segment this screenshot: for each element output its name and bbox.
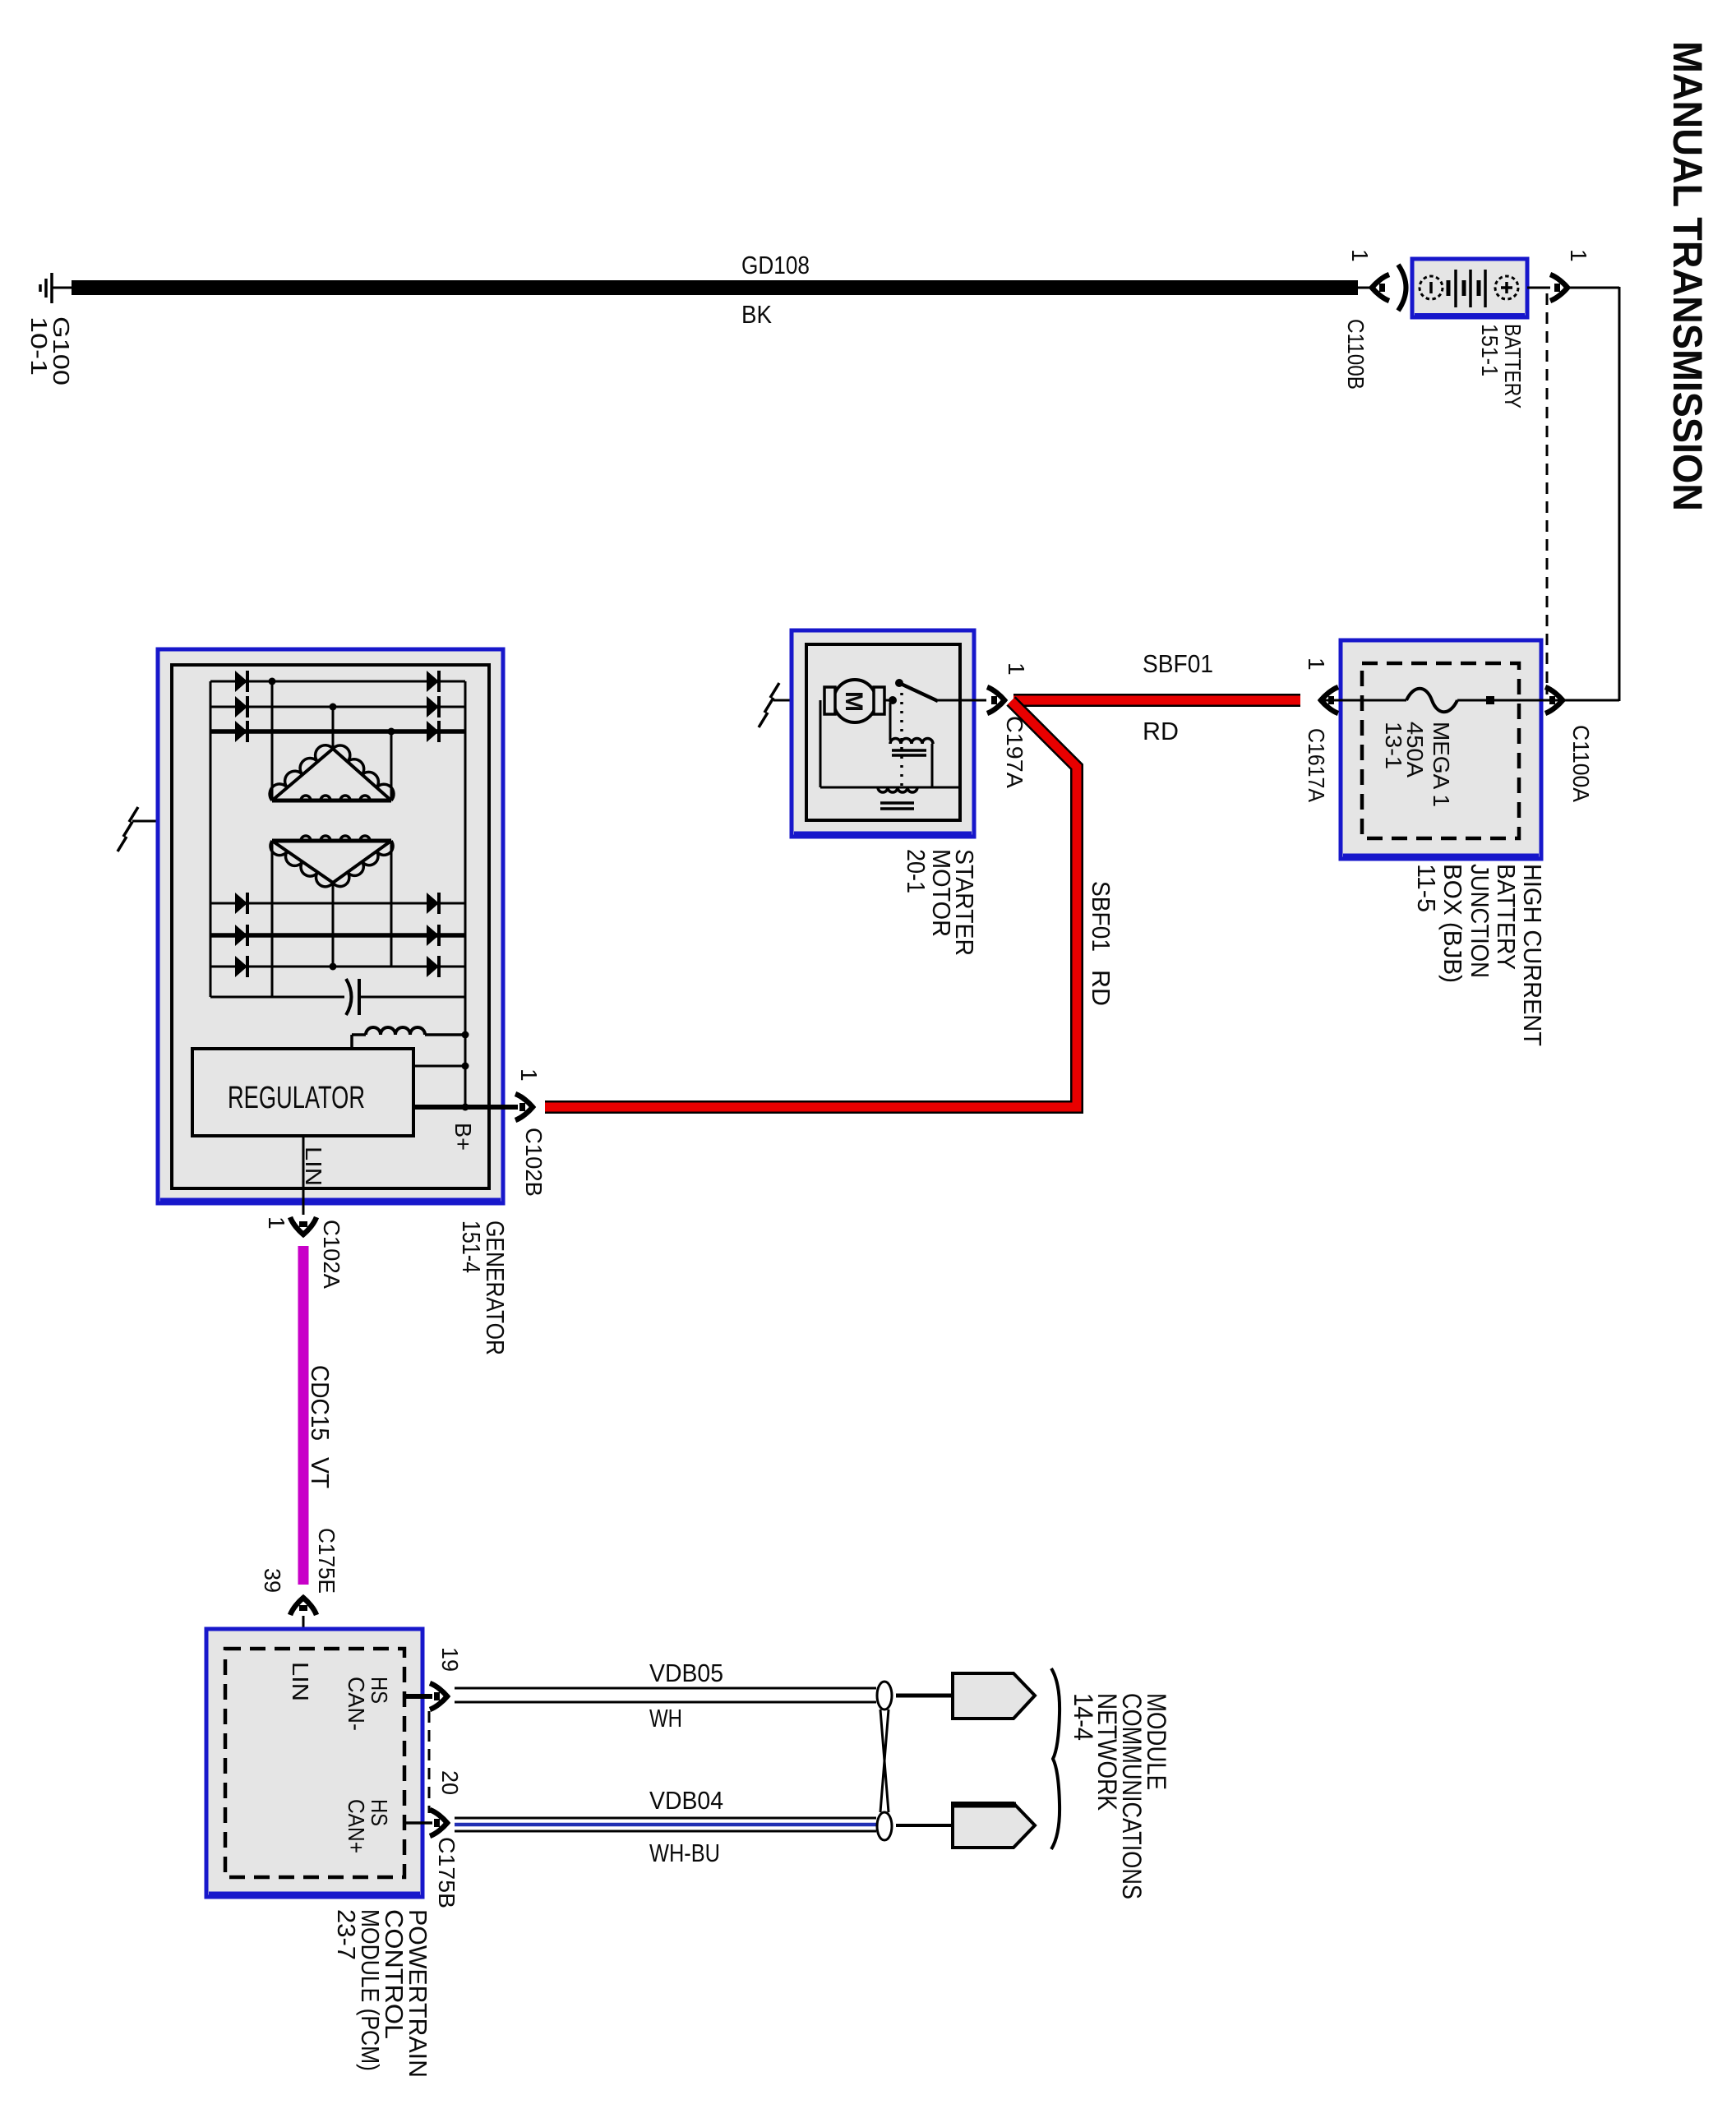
svg-text:BOX (BJB): BOX (BJB): [1438, 864, 1467, 983]
generator ground: [118, 807, 215, 851]
dashed connector bracket C175B: [428, 1711, 431, 1813]
pin 1 at C1100B: [1347, 249, 1373, 262]
wire to connector VDB05: [896, 1694, 953, 1698]
solenoid pull-in winding: [890, 703, 933, 787]
label VDB05 WH: [649, 1659, 723, 1733]
battery BATTERY 151-1: [1412, 259, 1527, 317]
pin 1 at C1617A: [1304, 657, 1329, 671]
generator box outline: [158, 649, 503, 1203]
pin 20: [437, 1770, 463, 1795]
starter ground: [759, 683, 824, 727]
label MODULE COMMUNICATIONS NETWORK: [1069, 1693, 1171, 1899]
label C1617A: [1304, 728, 1329, 802]
svg-text:REGULATOR: REGULATOR: [228, 1081, 365, 1115]
svg-text:1: 1: [1304, 657, 1329, 671]
capacitor: [210, 979, 465, 1015]
wire pin 20: [404, 1821, 432, 1825]
svg-text:C1100A: C1100A: [1568, 725, 1594, 802]
svg-text:MOTOR: MOTOR: [927, 849, 956, 937]
wire CDC15 VT: [298, 1246, 309, 1585]
svg-text:10-1: 10-1: [26, 316, 52, 376]
wire VDB04 WH-BU pair: [455, 1818, 876, 1831]
svg-text:39: 39: [260, 1568, 285, 1593]
wire starter bottom: [820, 700, 960, 787]
svg-text:C1617A: C1617A: [1304, 728, 1329, 802]
svg-text:BATTERY: BATTERY: [1500, 324, 1526, 408]
wire GD108 BK: [72, 280, 1358, 295]
network connector VDB05: [953, 1673, 1035, 1719]
phase wire B: [330, 704, 337, 750]
svg-text:RD: RD: [1087, 970, 1115, 1006]
diode row 5 bold: [210, 925, 465, 946]
label C1100A: [1568, 725, 1594, 802]
wire SBF01 RD horizontal: [1013, 694, 1300, 707]
svg-text:VT: VT: [306, 1457, 335, 1488]
svg-text:14-4: 14-4: [1069, 1693, 1098, 1741]
starter inner box: [806, 644, 960, 820]
generator inner box: [172, 665, 489, 1188]
svg-text:1: 1: [516, 1068, 542, 1082]
wire vertical to BJB: [1618, 287, 1621, 701]
svg-text:SBF01: SBF01: [1143, 649, 1213, 678]
wire B+ output: [413, 1104, 518, 1111]
wire into PCM: [302, 1616, 305, 1650]
label C1100B: [1343, 319, 1369, 390]
diode row 4: [210, 893, 465, 914]
svg-text:1: 1: [1566, 249, 1591, 262]
ground G100 10-1: [26, 273, 74, 385]
label C102A: [319, 1220, 344, 1289]
regulator REGULATOR box: [192, 1049, 413, 1136]
label POWERTRAIN CONTROL MODULE: [332, 1909, 432, 2078]
label GENERATOR 151-4: [457, 1220, 510, 1355]
diode row 2: [210, 696, 465, 717]
svg-text:1: 1: [1004, 662, 1029, 676]
svg-text:HIGH CURRENT: HIGH CURRENT: [1518, 864, 1547, 1046]
svg-text:CAN+: CAN+: [344, 1799, 369, 1853]
inductor: [352, 1027, 469, 1050]
svg-text:VDB05: VDB05: [649, 1659, 723, 1687]
regulator stub wire: [413, 1063, 469, 1070]
label VDB04 WH-BU: [649, 1786, 723, 1867]
svg-text:B+: B+: [450, 1123, 476, 1151]
label STARTER MOTOR 20-1: [902, 849, 979, 956]
phase wire C lower: [390, 841, 393, 967]
diode row 1: [210, 671, 465, 692]
svg-text:SBF01: SBF01: [1087, 881, 1115, 952]
connector arrow battery out: [1550, 275, 1567, 301]
svg-text:VDB04: VDB04: [649, 1786, 723, 1815]
svg-text:LIN: LIN: [301, 1147, 326, 1186]
label CDC15 VT: [306, 1365, 335, 1488]
connector C102B arrow: [515, 1094, 533, 1120]
connector C1100B: [1358, 265, 1406, 311]
label LIN PCM: [288, 1662, 313, 1701]
svg-text:1: 1: [1347, 249, 1373, 262]
PCM box outline: [206, 1629, 422, 1897]
label HS CAN+: [344, 1799, 392, 1853]
svg-text:1: 1: [264, 1216, 289, 1230]
svg-text:C1100B: C1100B: [1343, 319, 1369, 390]
svg-text:GD108: GD108: [741, 251, 810, 279]
pin 1 at C197A: [1004, 662, 1029, 676]
pin 1 at C102A: [264, 1216, 289, 1230]
fuse MEGA 1 450A: [1321, 689, 1563, 713]
label HIGH CURRENT BATTERY JUNCTION BOX: [1412, 864, 1547, 1046]
pin 1 at C102B: [516, 1068, 542, 1082]
svg-text:BK: BK: [741, 300, 772, 329]
connector C102A arrow: [290, 1217, 316, 1234]
svg-text:MEGA 1: MEGA 1: [1429, 722, 1454, 807]
label C175B: [434, 1837, 459, 1908]
phase wire A: [269, 678, 276, 801]
svg-text:RD: RD: [1143, 717, 1179, 745]
label GD108: [741, 251, 810, 329]
phase wire B lower: [330, 883, 337, 971]
pin 19: [437, 1647, 463, 1672]
svg-text:19: 19: [437, 1647, 463, 1672]
switch arm solenoid contact: [895, 679, 938, 701]
svg-text:23-7: 23-7: [332, 1909, 361, 1960]
solenoid actuator dotted line: [900, 693, 903, 786]
svg-text:BATTERY: BATTERY: [1492, 864, 1521, 970]
diode row 6: [210, 956, 465, 977]
svg-text:11-5: 11-5: [1412, 864, 1441, 912]
label BATTERY 151-1: [1477, 324, 1526, 408]
svg-text:LIN: LIN: [288, 1662, 313, 1701]
svg-text:20-1: 20-1: [902, 849, 930, 893]
label C175E: [314, 1528, 339, 1594]
wire pin 19: [404, 1694, 432, 1699]
wire motor feed: [884, 696, 897, 704]
connector C175E arrow: [290, 1598, 316, 1615]
connector pin20 arrow: [430, 1810, 447, 1836]
generator left bus: [210, 681, 212, 997]
svg-text:CAN-: CAN-: [344, 1677, 369, 1731]
twisted pair symbol: [877, 1682, 892, 1840]
dashed wire battery to BJB: [1546, 293, 1549, 694]
wire to connector VDB04: [896, 1824, 953, 1827]
diode row 3 bold: [210, 721, 465, 742]
svg-text:CDC15: CDC15: [306, 1365, 335, 1441]
phase wire C: [388, 728, 395, 801]
wire battery plus: [1527, 287, 1550, 289]
svg-text:151-1: 151-1: [1477, 324, 1503, 376]
connector pin19 arrow: [430, 1683, 447, 1709]
label SBF01 RD vertical: [1087, 881, 1115, 1006]
wire LIN output: [302, 1136, 305, 1215]
starter box outline: [792, 630, 974, 837]
BJB dashed fuse box: [1362, 663, 1519, 838]
motor M: [824, 680, 884, 722]
svg-text:HS: HS: [367, 1799, 392, 1826]
svg-text:C197A: C197A: [1002, 716, 1027, 788]
connector C197A arrow: [987, 687, 1004, 713]
stator winding delta 2: [270, 836, 393, 887]
junction box BJB outline: [1341, 640, 1541, 859]
label HS CAN-: [344, 1677, 392, 1731]
svg-text:MANUAL TRANSMISSION: MANUAL TRANSMISSION: [1664, 41, 1711, 511]
svg-text:151-4: 151-4: [457, 1220, 486, 1273]
wire switch to connector: [938, 699, 986, 702]
pin 39: [260, 1568, 285, 1593]
solenoid hold-in winding: [878, 787, 917, 809]
wire SBF01 RD branch: [545, 701, 1077, 1107]
phase wire A lower: [271, 841, 274, 997]
svg-text:C175E: C175E: [314, 1528, 339, 1594]
svg-text:C102B: C102B: [521, 1128, 547, 1197]
wire BJB to corner: [1563, 699, 1619, 702]
svg-text:WH-BU: WH-BU: [649, 1839, 720, 1867]
network connector VDB04: [953, 1803, 1035, 1848]
svg-text:WH: WH: [649, 1704, 682, 1733]
pin 1 battery out: [1566, 249, 1591, 262]
connector C1617A arrow: [1321, 687, 1338, 713]
label C102B: [521, 1128, 547, 1197]
svg-text:M: M: [840, 691, 867, 712]
title MANUAL TRANSMISSION: [1664, 41, 1711, 511]
label LIN generator: [301, 1147, 326, 1186]
svg-text:13-1: 13-1: [1381, 722, 1406, 769]
brace module network: [1051, 1668, 1060, 1849]
label C197A: [1002, 716, 1027, 788]
wire VDB05 WH pair: [455, 1688, 876, 1702]
svg-text:C175B: C175B: [434, 1837, 459, 1908]
svg-text:HS: HS: [367, 1677, 392, 1704]
stator winding delta 1: [270, 745, 394, 801]
PCM dashed inner box: [225, 1649, 404, 1877]
wire to corner: [1567, 287, 1619, 289]
label MEGA 1 450A 13-1: [1381, 722, 1454, 807]
label SBF01 RD top: [1143, 649, 1213, 745]
connector C1100A arrow: [1545, 687, 1563, 713]
generator right bus: [464, 681, 467, 1107]
label B+: [450, 1123, 476, 1151]
svg-text:20: 20: [437, 1770, 463, 1795]
svg-text:C102A: C102A: [319, 1220, 344, 1289]
svg-text:JUNCTION: JUNCTION: [1466, 864, 1494, 978]
